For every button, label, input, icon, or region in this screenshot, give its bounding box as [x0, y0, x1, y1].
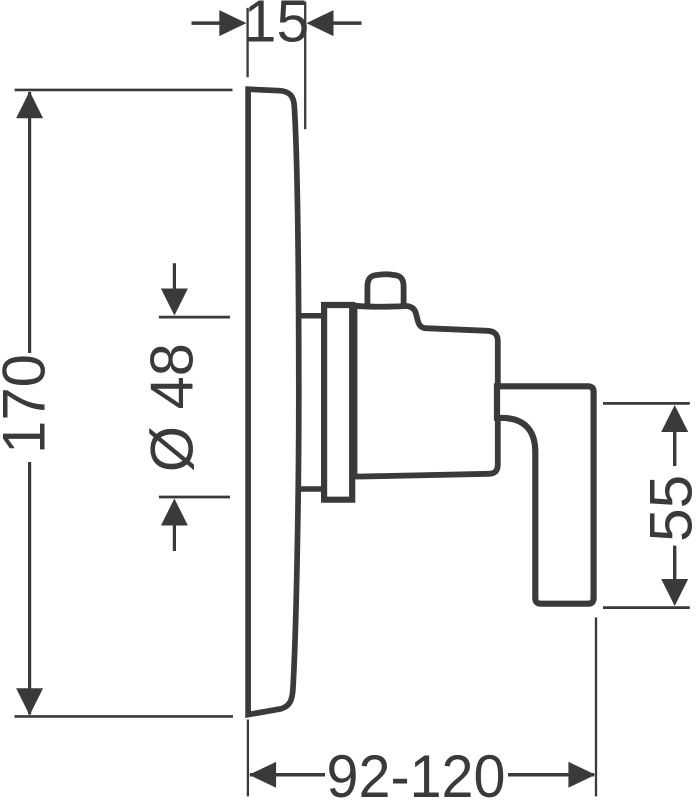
svg-text:Ø 48: Ø 48	[139, 343, 206, 472]
dim Ø48: upper arrowhead (points down)	[161, 289, 188, 316]
dim 55: dimension line upper segment	[673, 430, 676, 466]
dim Ø48: dimension line above	[173, 263, 176, 290]
dim 15: right arrowhead	[306, 10, 333, 36]
lever handle	[497, 386, 594, 603]
dim 92-120: dimension line right segment	[508, 773, 594, 777]
dim 170: top arrowhead	[16, 91, 43, 118]
dim 15: left extension line	[246, 8, 248, 77]
dim 92-120: right extension line	[595, 617, 597, 796]
dim 92-120: dimension line left segment	[250, 773, 325, 777]
svg-text:170: 170	[0, 354, 58, 454]
dim 55: lower arrowhead (points down)	[661, 579, 688, 606]
dim 170: dimension line lower segment	[28, 462, 31, 715]
dim 15: left arrow line	[192, 21, 222, 25]
dim 15: right arrow line	[333, 21, 362, 25]
dim 92-120: right arrowhead	[568, 762, 595, 788]
dim Ø48: bottom tick line	[159, 496, 230, 499]
knob/button on top of body	[367, 274, 403, 309]
dim Ø48: lower arrowhead (points up)	[161, 499, 188, 526]
dim Ø48: top tick line	[159, 316, 230, 319]
dim 170: dimension line upper segment	[28, 92, 31, 353]
svg-text:15: 15	[244, 0, 310, 54]
dim 15: left arrowhead	[219, 10, 246, 36]
valve body	[355, 306, 498, 477]
sleeve bottom line (Ø48 cylinder)	[297, 486, 323, 492]
svg-text:92-120: 92-120	[327, 743, 506, 800]
dim Ø48: dimension line below	[173, 524, 176, 551]
sleeve top line (Ø48 cylinder)	[297, 313, 323, 319]
svg-text:55: 55	[638, 475, 697, 542]
dim 55: dimension line lower segment	[673, 546, 676, 581]
sleeve ring	[324, 305, 352, 500]
dim 92-120: left arrowhead	[249, 762, 276, 788]
wall plate (escutcheon, side view)	[248, 89, 299, 714]
dim 170: bottom reference line	[15, 715, 234, 718]
dim 15: right extension line	[304, 2, 306, 130]
dim 170: top reference line	[15, 89, 233, 92]
dim 170: bottom arrowhead	[16, 688, 43, 715]
dim 55: upper arrowhead (points up)	[661, 405, 688, 432]
dim 92-120: left extension line	[247, 720, 249, 797]
dim 55: bottom tick line	[603, 606, 690, 609]
dim 55: top tick line	[603, 402, 690, 405]
